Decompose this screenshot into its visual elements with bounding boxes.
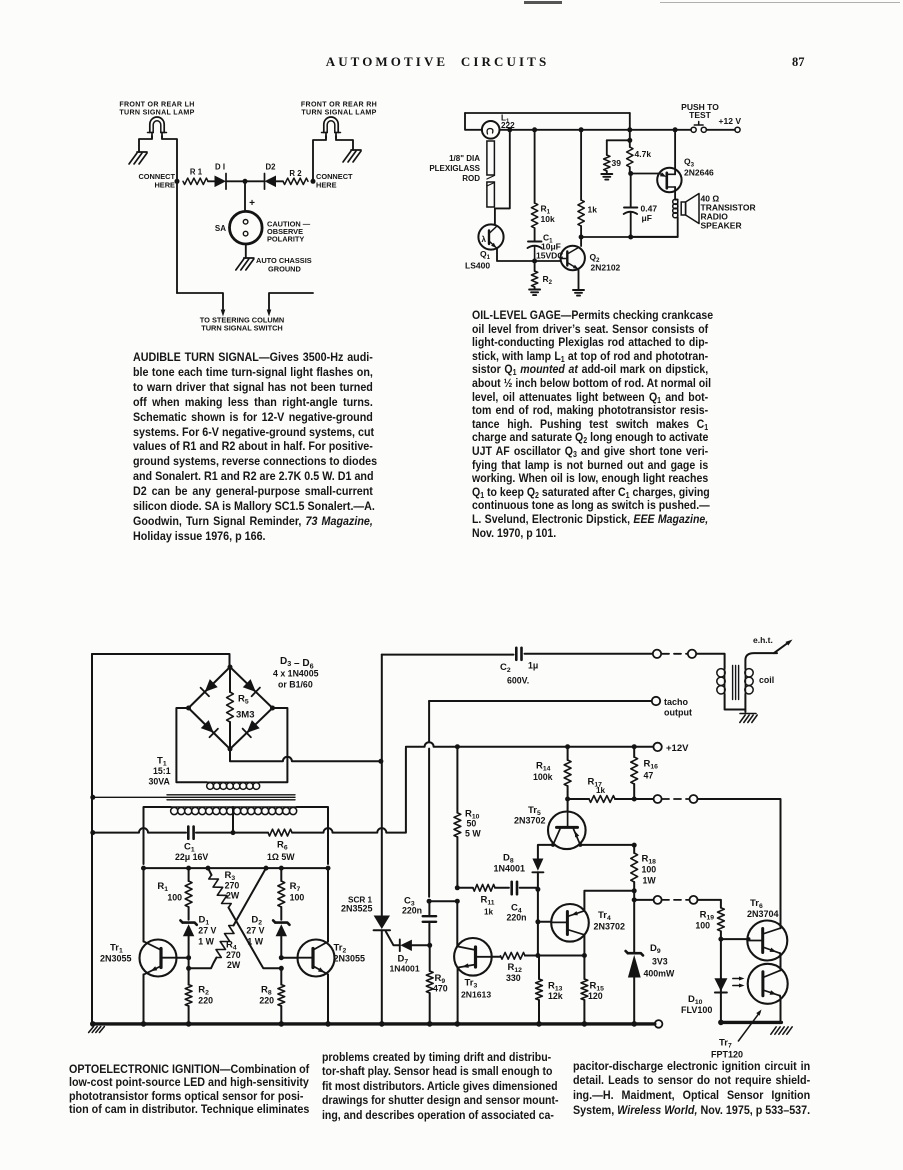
svg-text:FRONT OR REAR LH: FRONT OR REAR LH — [119, 101, 194, 109]
wire bridge left vertex to T1 primary — [176, 708, 206, 782]
svg-text:22μ 16V: 22μ 16V — [175, 852, 208, 862]
wire Tr2 base — [279, 955, 298, 960]
svg-text:1N4001: 1N4001 — [494, 864, 526, 874]
resistor R17 1k — [568, 777, 635, 803]
svg-text:HERE: HERE — [154, 181, 175, 190]
caption optoelectronic col2 — [322, 1050, 551, 1123]
svg-text:GROUND: GROUND — [268, 265, 302, 274]
svg-text:e.h.t.: e.h.t. — [753, 635, 773, 645]
wire Tr1 base — [177, 955, 192, 960]
transformer T1 primary — [149, 756, 260, 790]
svg-text:3M3: 3M3 — [236, 710, 254, 721]
caption oil-level gage — [472, 309, 708, 540]
node C2 terminal — [653, 650, 661, 658]
svg-text:μF: μF — [642, 213, 652, 223]
svg-text:TEST: TEST — [689, 110, 712, 120]
resistor R13 12k — [536, 956, 563, 1024]
svg-text:400mW: 400mW — [644, 969, 675, 979]
svg-text:2N3704: 2N3704 — [747, 909, 779, 919]
ground — [89, 1027, 105, 1033]
wire Tr4 collector — [582, 935, 587, 958]
svg-text:39: 39 — [612, 158, 622, 168]
svg-text:D9: D9 — [650, 943, 661, 955]
wire — [276, 180, 283, 182]
wire +12V rail — [406, 742, 653, 749]
label TO STEERING COLUMN TURN SIGNAL SWITCH — [200, 316, 284, 333]
svg-text:SA: SA — [215, 224, 226, 233]
svg-text:2W: 2W — [226, 891, 240, 901]
page number 87 — [792, 55, 805, 70]
svg-text:Q1: Q1 — [480, 249, 491, 261]
transistor Tr3 2N1613 — [454, 938, 492, 1000]
ground — [573, 290, 584, 296]
wire to steering column switch (left) — [177, 293, 225, 317]
wire — [162, 136, 177, 293]
wire Tr5 emitter — [578, 843, 636, 848]
caption audible turn signal — [133, 350, 373, 544]
wire Tr6 base — [721, 937, 751, 941]
resistor R3 270 2W cross-coupling — [206, 866, 282, 969]
wire Q3 emitter — [631, 172, 667, 177]
svg-text:1k: 1k — [588, 205, 598, 215]
svg-text:R16: R16 — [644, 759, 659, 771]
svg-text:2N1613: 2N1613 — [461, 990, 491, 1000]
svg-text:220: 220 — [259, 996, 274, 1006]
wire terminal row mid — [632, 897, 654, 902]
svg-text:100: 100 — [642, 865, 657, 875]
svg-text:R11: R11 — [481, 895, 495, 907]
svg-text:R2: R2 — [543, 274, 553, 286]
svg-text:Tr7: Tr7 — [719, 1038, 732, 1050]
wire tacho line — [429, 701, 651, 897]
wire — [628, 171, 633, 237]
wire — [534, 130, 536, 241]
diode D10 FLV100 LED — [681, 978, 727, 1015]
wire — [578, 270, 580, 291]
node ground terminal — [655, 1020, 663, 1028]
phototransistor Tr7 FPT120 — [711, 964, 788, 1060]
svg-text:R 1: R 1 — [190, 168, 203, 177]
svg-text:ROD: ROD — [462, 174, 480, 183]
ground — [771, 1027, 792, 1035]
caption optoelectronic col3 — [573, 1059, 810, 1119]
node terminal — [688, 650, 696, 658]
ground — [601, 171, 612, 180]
node terminal — [690, 795, 698, 803]
svg-text:27 V: 27 V — [198, 926, 216, 936]
wire secondary right lead — [297, 807, 328, 864]
node terminal — [654, 795, 662, 803]
zener D1 27V 1W — [180, 915, 216, 958]
wire e.h.t. — [745, 635, 792, 669]
resistor R11 1k — [473, 884, 509, 916]
wire Tr1 collector — [143, 868, 145, 942]
svg-text:1 W: 1 W — [247, 937, 263, 947]
switch PUSH TO TEST — [681, 102, 719, 132]
svg-text:47: 47 — [644, 771, 654, 781]
wire Tr1 emitter — [143, 974, 145, 1024]
turn signal lamp RH — [301, 101, 377, 139]
resistor 1k — [578, 200, 597, 226]
LED light arrows — [733, 977, 745, 988]
wire main bus — [500, 127, 692, 132]
wire Q3 base2 to +12V — [674, 130, 676, 175]
svg-text:2N3055: 2N3055 — [100, 954, 132, 964]
svg-text:coil: coil — [759, 675, 774, 685]
lamp L1 — [482, 114, 515, 139]
node terminal — [690, 896, 698, 904]
diode D7 1N4001 — [390, 940, 430, 974]
wire Tr7 emitter — [779, 996, 782, 1023]
svg-text:D I: D I — [215, 163, 225, 172]
svg-text:30VA: 30VA — [149, 777, 171, 787]
svg-text:100: 100 — [290, 893, 305, 903]
svg-text:100: 100 — [167, 893, 182, 903]
capacitor C1 10uF 15VDC — [528, 233, 564, 262]
ground — [529, 287, 540, 295]
resistor 39 — [604, 155, 622, 171]
wire top — [92, 654, 230, 667]
resistor R12 330 — [492, 952, 585, 983]
wire SCR gate — [386, 932, 400, 946]
wire bottom rail — [90, 1021, 655, 1027]
svg-text:λ: λ — [482, 235, 487, 244]
svg-text:470: 470 — [433, 984, 448, 994]
svg-text:220n: 220n — [402, 906, 422, 916]
wire — [139, 136, 152, 152]
wire — [245, 244, 247, 258]
svg-text:HERE: HERE — [316, 181, 337, 190]
svg-text:27 V: 27 V — [246, 926, 264, 936]
svg-text:C2: C2 — [500, 662, 511, 674]
svg-text:1N4001: 1N4001 — [390, 964, 420, 974]
wire bridge right vertex to T1 primary — [260, 708, 288, 782]
capacitor 0.47uF — [624, 204, 658, 224]
resistor R2 — [283, 169, 308, 185]
svg-text:1W: 1W — [643, 876, 657, 886]
ground AUTO CHASSIS GROUND — [236, 256, 312, 274]
wire to sonalert — [245, 181, 255, 211]
zener D9 3V3 400mW — [626, 900, 675, 1023]
resistor R19 100 — [695, 908, 724, 979]
transistor Q2 — [561, 246, 621, 273]
svg-text:D2: D2 — [266, 163, 277, 172]
sonalert SA — [215, 211, 311, 244]
wire R11 row — [455, 885, 473, 890]
wire — [465, 113, 482, 130]
resistor R15 120 — [581, 956, 604, 1024]
transistor Tr4 2N3702 — [551, 904, 625, 942]
scan artifact marks — [524, 1, 562, 4]
node CONNECT HERE (right) — [311, 172, 354, 190]
svg-text:50: 50 — [467, 819, 477, 829]
node CONNECT HERE (left) — [138, 172, 179, 190]
transistor Tr1 2N3055 — [100, 940, 177, 977]
wire — [579, 130, 584, 246]
svg-text:+: + — [249, 198, 255, 209]
capacitor C4 220n — [507, 882, 541, 923]
svg-text:270: 270 — [226, 950, 241, 960]
svg-text:2N3702: 2N3702 — [594, 922, 626, 932]
svg-text:330: 330 — [506, 973, 521, 983]
svg-text:R14: R14 — [536, 761, 551, 773]
wire dashed — [662, 798, 689, 800]
svg-text:TURN SIGNAL SWITCH: TURN SIGNAL SWITCH — [201, 324, 283, 333]
wire secondary centre tap — [232, 807, 234, 833]
wire — [226, 179, 265, 184]
transformer T1 core — [93, 795, 295, 800]
node tacho output — [652, 697, 692, 718]
resistor R1 100 — [157, 868, 192, 920]
wire Tr7 pointer — [738, 1010, 761, 1042]
svg-text:15VDC: 15VDC — [536, 251, 563, 261]
svg-text:or B1/60: or B1/60 — [278, 680, 313, 690]
svg-text:Tr4: Tr4 — [598, 910, 611, 922]
resistor R7 100 — [278, 868, 304, 920]
capacitor C2 1u 600V — [500, 648, 538, 686]
svg-text:R6: R6 — [277, 840, 288, 852]
svg-text:2N2102: 2N2102 — [591, 263, 621, 273]
svg-text:+12 V: +12 V — [719, 116, 742, 126]
wire Tr6 emitter to Tr7 collector — [779, 953, 782, 970]
svg-text:LS400: LS400 — [465, 261, 490, 271]
svg-text:POLARITY: POLARITY — [267, 235, 304, 244]
phototransistor Q1 — [465, 224, 504, 270]
svg-text:tacho: tacho — [664, 697, 689, 707]
svg-text:12k: 12k — [548, 991, 563, 1001]
wire Tr3 collector — [456, 901, 458, 946]
resistor R1 10k — [531, 203, 555, 228]
wire top loop — [465, 112, 630, 114]
svg-text:1k: 1k — [484, 908, 494, 917]
svg-text:120: 120 — [588, 991, 603, 1001]
wire terminal row upper — [634, 798, 653, 800]
svg-text:100: 100 — [695, 921, 710, 931]
svg-text:3V3: 3V3 — [652, 957, 668, 967]
wire Tr4 emitter — [584, 891, 634, 911]
svg-text:+12V: +12V — [666, 743, 689, 754]
transistor Tr6 2N3704 — [747, 898, 787, 961]
resistor R2 220 — [185, 958, 213, 1024]
diode D2 — [265, 163, 277, 190]
ground — [343, 150, 361, 162]
svg-text:1 W: 1 W — [198, 937, 214, 947]
wire — [336, 136, 353, 150]
resistor R4 270 2W cross-coupling — [186, 866, 268, 971]
svg-text:1k: 1k — [596, 786, 606, 795]
wire to R19 — [698, 900, 721, 908]
node +12V — [719, 116, 742, 132]
transistor Tr5 2N3702 — [514, 805, 586, 849]
svg-text:4.7k: 4.7k — [635, 149, 652, 159]
svg-text:2N2646: 2N2646 — [684, 168, 714, 178]
wire sensor ground rail — [718, 1020, 781, 1026]
turn signal lamp LH — [119, 101, 194, 139]
svg-text:PLEXIGLASS: PLEXIGLASS — [429, 164, 480, 173]
wire Q3 base1 to speaker — [675, 187, 678, 200]
transformer T1 secondary — [171, 807, 297, 815]
wire — [313, 136, 326, 181]
header AUTOMOTIVE CIRCUITS — [0, 54, 889, 70]
wire 39 branch — [607, 140, 630, 155]
wire C3 top row — [427, 899, 460, 904]
wire to steering column switch (right) — [267, 293, 313, 317]
resistor R16 47 — [631, 747, 658, 802]
wire dashed — [662, 653, 687, 655]
transistor Tr2 2N3055 — [298, 940, 366, 977]
diode D1 — [215, 163, 227, 190]
svg-text:R 2: R 2 — [289, 169, 302, 178]
speaker — [681, 194, 755, 231]
wire collector row — [141, 866, 331, 871]
resistor R10 50 5W — [454, 747, 481, 888]
zener D2 27V 1W — [246, 915, 289, 958]
SCR 1 2N3525 — [341, 655, 390, 1024]
resistor R2 — [531, 261, 552, 287]
wire — [631, 217, 678, 236]
wire dashed — [662, 899, 689, 901]
wire left rail — [90, 654, 95, 1024]
svg-text:600V.: 600V. — [507, 676, 529, 686]
capacitor C3 220n — [402, 896, 436, 948]
svg-text:output: output — [664, 708, 692, 718]
wire Tr2 collector — [327, 868, 329, 942]
wire Q1 collector — [495, 130, 510, 225]
svg-text:TURN SIGNAL LAMP: TURN SIGNAL LAMP — [301, 109, 376, 117]
svg-text:1/8" DIA: 1/8" DIA — [449, 154, 480, 163]
resistor 4.7k — [627, 147, 652, 167]
svg-text:1Ω 5W: 1Ω 5W — [267, 852, 295, 862]
node terminal — [654, 896, 662, 904]
resistor R8 220 — [259, 966, 284, 1024]
wire coil ground — [725, 694, 746, 712]
svg-text:220n: 220n — [507, 913, 527, 923]
wire Tr3 emitter — [457, 968, 459, 1024]
speaker voice coil — [673, 199, 678, 218]
node +12V — [653, 743, 689, 754]
svg-text:R1: R1 — [157, 881, 168, 893]
svg-text:270: 270 — [225, 881, 240, 891]
svg-text:Tr3: Tr3 — [465, 978, 478, 990]
svg-text:220: 220 — [198, 996, 213, 1006]
resistor R9 470 — [426, 945, 447, 1024]
svg-text:0.47: 0.47 — [641, 204, 658, 214]
wire — [627, 113, 632, 174]
wire — [208, 180, 215, 182]
resistor R1 — [183, 168, 208, 185]
svg-text:TURN SIGNAL LAMP: TURN SIGNAL LAMP — [119, 109, 194, 117]
svg-text:100k: 100k — [533, 772, 553, 782]
svg-text:2N3525: 2N3525 — [341, 904, 373, 914]
svg-text:5 W: 5 W — [465, 829, 481, 839]
svg-text:R7: R7 — [290, 881, 301, 893]
resistor R6 1ohm 5W — [267, 829, 295, 862]
plexiglass rod — [429, 141, 494, 207]
resistor R18 100 1W — [631, 845, 657, 900]
ground — [129, 152, 147, 164]
ground — [740, 714, 757, 723]
UJT Q3 — [657, 157, 714, 193]
diode D8 1N4001 — [494, 853, 544, 890]
svg-text:15:1: 15:1 — [153, 766, 171, 776]
wire Q1 emitter to Q2 base — [497, 249, 561, 264]
resistor R5 3M3 — [227, 667, 255, 749]
diode bridge D3-D6 — [186, 656, 319, 752]
wire secondary left lead — [144, 807, 171, 864]
svg-text:2N3055: 2N3055 — [334, 954, 366, 964]
wire to Tr6 collector — [698, 799, 781, 928]
svg-text:SPEAKER: SPEAKER — [701, 221, 742, 231]
wire to ignition coil — [696, 654, 724, 669]
wire Tr5 collector to D8 — [538, 843, 555, 859]
svg-text:FLV100: FLV100 — [681, 1005, 712, 1015]
svg-text:R5: R5 — [238, 694, 249, 706]
svg-text:10k: 10k — [541, 214, 555, 224]
ignition coil — [717, 666, 774, 700]
wire bridge bottom to SCR rail — [230, 749, 383, 764]
svg-text:2N3702: 2N3702 — [514, 816, 546, 826]
svg-text:4 x 1N4005: 4 x 1N4005 — [273, 669, 319, 679]
wire Q2 collector row — [581, 235, 678, 240]
svg-text:FRONT OR REAR RH: FRONT OR REAR RH — [301, 101, 377, 109]
wire Tr2 emitter — [327, 974, 329, 1024]
wire C1/R6 bus — [92, 748, 406, 835]
wire Tr4 base column — [535, 889, 551, 958]
wire — [706, 129, 735, 131]
capacitor C1 22u 16V — [175, 827, 208, 863]
svg-text:2W: 2W — [227, 960, 241, 970]
resistor R14 100k — [533, 747, 571, 812]
wire sensor bottom — [720, 978, 722, 1022]
svg-text:1μ: 1μ — [528, 661, 538, 671]
caption optoelectronic col1 — [69, 1063, 303, 1117]
wire C2 line — [382, 653, 653, 656]
